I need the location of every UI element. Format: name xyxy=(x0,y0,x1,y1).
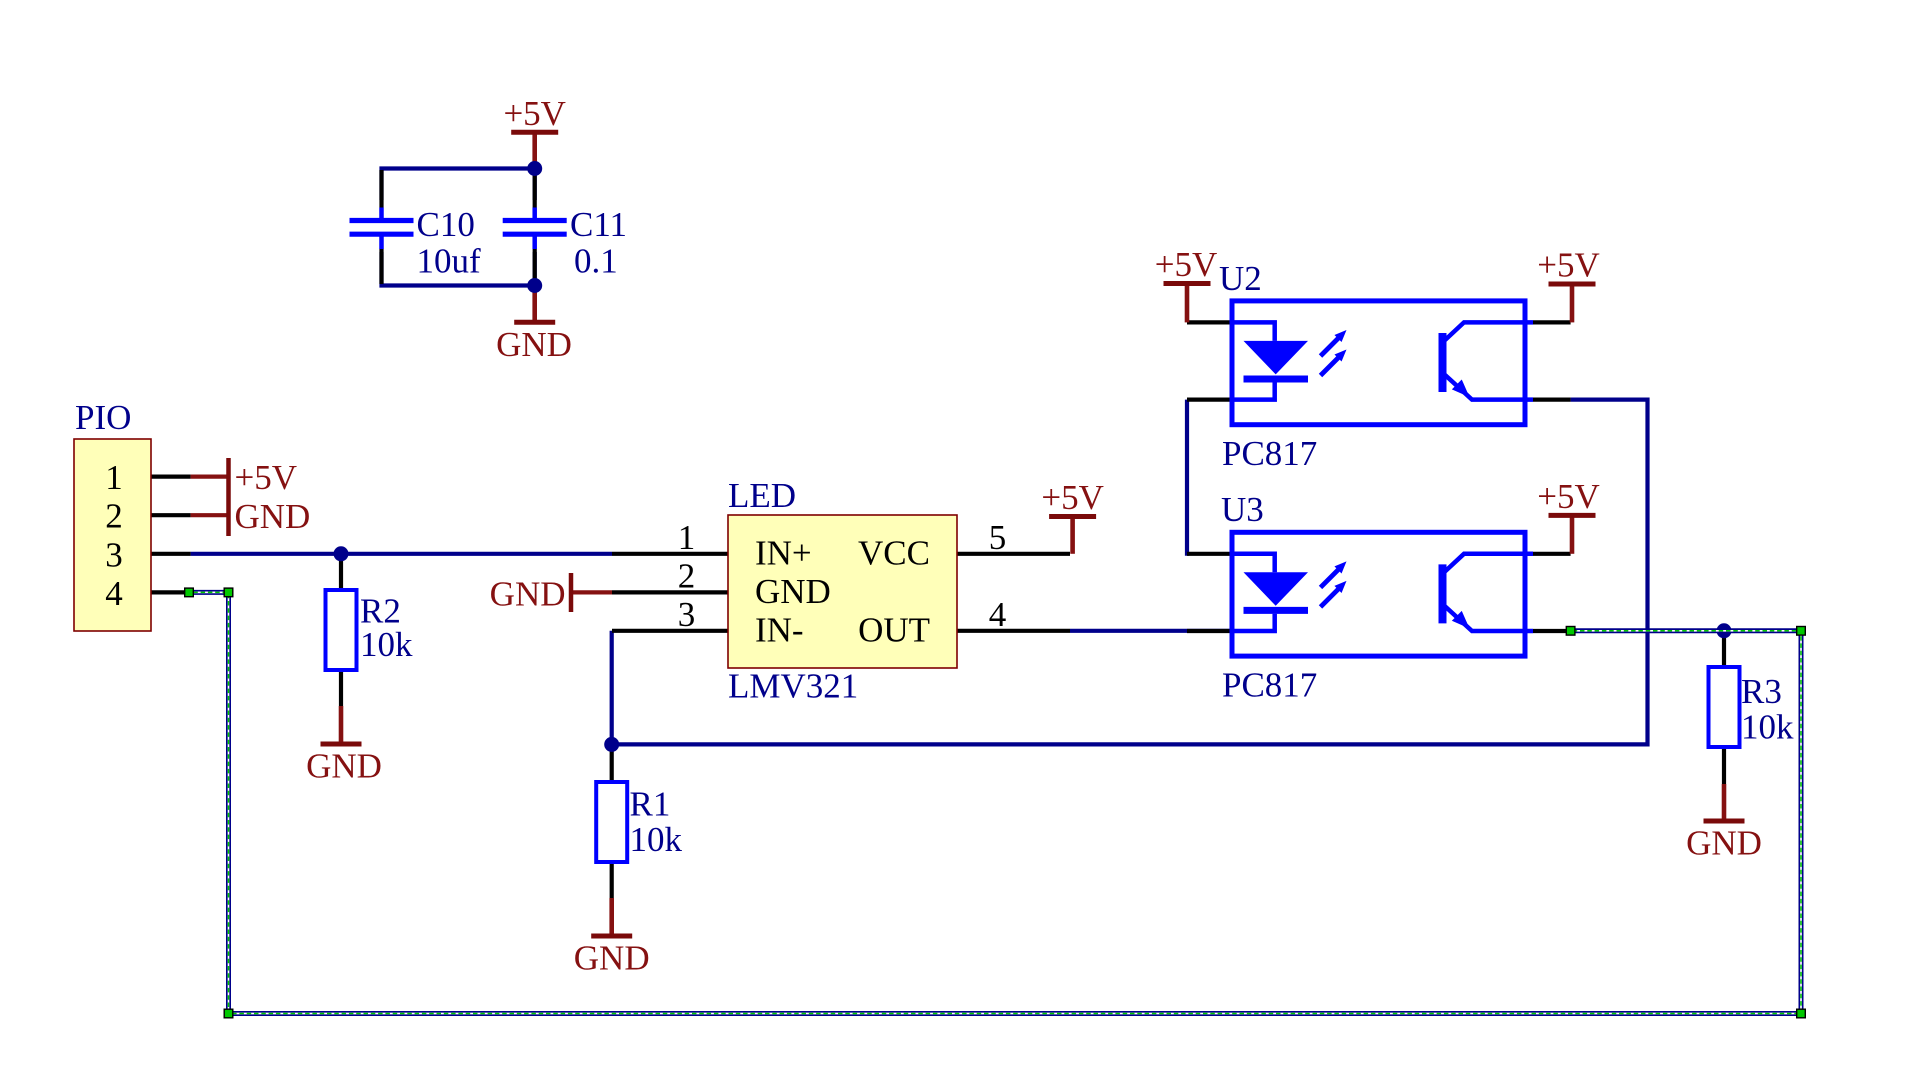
svg-text:GND: GND xyxy=(306,747,382,786)
svg-text:LMV321: LMV321 xyxy=(728,667,858,706)
svg-text:R1: R1 xyxy=(630,785,671,824)
svg-text:+5V: +5V xyxy=(1537,246,1600,285)
svg-text:OUT: OUT xyxy=(858,610,930,649)
svg-text:+5V: +5V xyxy=(1155,245,1218,284)
svg-text:GND: GND xyxy=(574,939,650,978)
svg-text:U2: U2 xyxy=(1219,259,1262,298)
svg-text:IN-: IN- xyxy=(755,610,804,649)
svg-text:10k: 10k xyxy=(630,820,683,859)
svg-text:LED: LED xyxy=(728,476,796,515)
svg-text:10k: 10k xyxy=(1741,708,1794,747)
svg-text:+5V: +5V xyxy=(1537,477,1600,516)
svg-text:10k: 10k xyxy=(360,625,413,664)
svg-text:1: 1 xyxy=(105,458,123,497)
svg-text:R3: R3 xyxy=(1741,672,1782,711)
svg-text:0.1: 0.1 xyxy=(574,242,618,281)
svg-text:2: 2 xyxy=(105,497,123,536)
svg-text:2: 2 xyxy=(678,556,696,595)
svg-text:VCC: VCC xyxy=(858,533,930,572)
svg-text:5: 5 xyxy=(989,518,1007,557)
svg-text:PIO: PIO xyxy=(75,398,131,437)
svg-text:3: 3 xyxy=(678,595,696,634)
svg-text:+5V: +5V xyxy=(503,94,566,133)
svg-text:GND: GND xyxy=(496,325,572,364)
svg-text:GND: GND xyxy=(1686,824,1762,863)
svg-text:+5V: +5V xyxy=(1041,478,1104,517)
svg-text:C10: C10 xyxy=(417,205,475,244)
svg-text:1: 1 xyxy=(678,518,696,557)
svg-text:PC817: PC817 xyxy=(1222,666,1317,705)
svg-text:GND: GND xyxy=(235,497,311,536)
svg-text:+5V: +5V xyxy=(235,458,298,497)
svg-text:4: 4 xyxy=(105,574,123,613)
svg-text:U3: U3 xyxy=(1221,490,1264,529)
svg-text:10uf: 10uf xyxy=(417,242,482,281)
svg-text:GND: GND xyxy=(490,575,566,614)
svg-text:PC817: PC817 xyxy=(1222,434,1317,473)
svg-text:C11: C11 xyxy=(570,205,627,244)
svg-text:IN+: IN+ xyxy=(755,533,812,572)
svg-text:GND: GND xyxy=(755,572,831,611)
svg-text:3: 3 xyxy=(105,535,123,574)
svg-text:4: 4 xyxy=(989,595,1007,634)
